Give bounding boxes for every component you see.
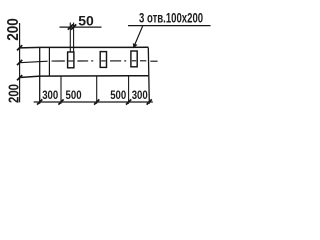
- 50 extension line a: [69, 23, 71, 53]
- centerline dash in hole 3: [132, 60, 136, 62]
- svg-text:3 отв.100x200: 3 отв.100x200: [139, 11, 203, 26]
- svg-text:500: 500: [110, 89, 126, 102]
- svg-text:200: 200: [5, 84, 22, 103]
- svg-text:50: 50: [78, 12, 94, 28]
- plate top edge: [20, 46, 149, 49]
- plate left edge + extension down: [39, 47, 41, 103]
- centerline dash c: [110, 60, 121, 62]
- centerline dash in hole 1: [68, 60, 73, 62]
- tick bottom x128.6: [126, 99, 131, 104]
- centerline dash e: [150, 60, 157, 62]
- 50 dimension line: [60, 26, 102, 28]
- tick 50 dim x73.6: [71, 24, 76, 29]
- centerline extension solid part: [20, 61, 48, 63]
- extension vertical 1300 mark: [128, 76, 130, 104]
- hole 3: [131, 51, 137, 67]
- svg-text:500: 500: [66, 89, 82, 102]
- 50 extension line b: [73, 23, 75, 53]
- centerline dot b: [91, 60, 93, 62]
- hole 1: [68, 52, 74, 68]
- extension vertical 800 mark: [96, 76, 98, 104]
- extension vertical 300 mark: [60, 76, 62, 104]
- leader line: [134, 26, 142, 46]
- svg-text:300: 300: [132, 89, 148, 102]
- leader arrowhead: [133, 43, 138, 48]
- tick bottom x96.7: [94, 99, 99, 104]
- tick bottom x149.2: [147, 99, 152, 104]
- centerline dash d: [140, 60, 146, 62]
- tick bottom x61: [58, 99, 63, 104]
- hole 2: [100, 52, 106, 68]
- tick 50 dim x70.4: [68, 24, 73, 29]
- plate bottom edge: [20, 76, 149, 78]
- internal seam line: [48, 47, 50, 76]
- left vertical dimension line: [19, 23, 21, 102]
- tick left y47.8: [17, 45, 22, 50]
- centerline dash b: [77, 60, 88, 62]
- tick left y77.7: [17, 75, 22, 80]
- tick bottom x39.7: [37, 99, 42, 104]
- centerline dash a: [52, 60, 65, 62]
- centerline dash in hole 2: [101, 60, 105, 62]
- plate right edge + extension down: [148, 48, 149, 104]
- label shelf underline: [128, 25, 211, 27]
- svg-text:300: 300: [42, 89, 58, 102]
- tick left y62.5: [17, 60, 22, 65]
- bottom dimension line: [34, 101, 153, 103]
- centerline dot c: [124, 60, 126, 62]
- svg-text:200: 200: [5, 18, 22, 41]
